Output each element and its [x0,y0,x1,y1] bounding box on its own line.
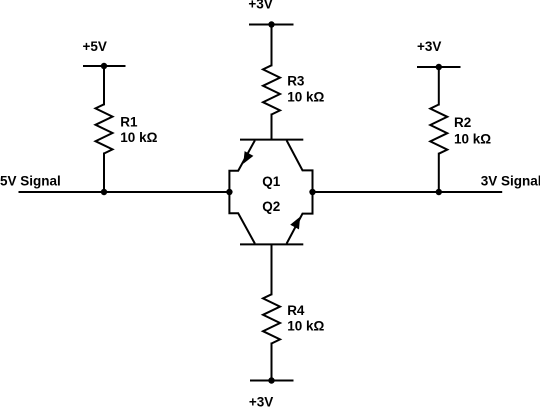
svg-text:10 kΩ: 10 kΩ [287,89,324,104]
transistor Q2 emitter arrowhead [290,217,300,230]
resistor R4 [263,294,280,343]
svg-text:R4: R4 [287,303,305,318]
svg-text:10 kΩ: 10 kΩ [120,130,157,145]
transistor Q2 collector (left) [229,192,255,244]
junction node R2 / 3V signal [436,189,442,195]
svg-text:3V Signal: 3V Signal [481,174,540,189]
svg-text:10 kΩ: 10 kΩ [287,319,324,334]
wire R1 top [103,66,105,105]
resistor R1 [96,104,113,153]
transistor Q1 base bar [240,139,303,141]
power rail +3V right [417,66,461,68]
resistor R2 [430,105,447,154]
svg-text:R3: R3 [287,74,305,89]
junction node R1 / 5V signal [101,189,107,195]
svg-text:5V Signal: 5V Signal [0,174,61,189]
power rail +5V [83,65,126,67]
wire R3 bottom [271,114,273,140]
transistor Q2 emitter (right, arrow) [287,192,313,244]
junction +5V rail [101,63,107,69]
transistor Q2 base bar [240,243,303,245]
resistor R3 [263,65,280,114]
svg-text:+3V: +3V [417,39,441,54]
wire R4 bottom [271,343,273,381]
transistor Q1 emitter arrowhead [243,151,253,164]
wire 3V signal [313,191,503,193]
wire R3 top [271,25,273,67]
svg-text:R1: R1 [120,115,138,130]
junction +3V top rail [268,21,274,27]
svg-text:+3V: +3V [248,0,272,12]
junction +3V bottom rail [268,377,274,383]
svg-text:+5V: +5V [83,39,107,54]
wire R2 top [438,67,440,106]
svg-text:+3V: +3V [249,394,273,407]
svg-text:Q2: Q2 [262,199,280,214]
junction node Q1/Q2 right [309,189,315,195]
power rail +3V bottom [250,380,294,382]
wire R1 bottom [103,153,105,193]
svg-text:Q1: Q1 [262,174,281,189]
wire R4 top [271,244,273,295]
transistor Q1 emitter (left, arrow) [229,140,255,192]
junction node Q1/Q2 left [226,189,232,195]
junction +3V right rail [436,64,442,70]
svg-text:R2: R2 [454,115,471,130]
wire R2 bottom [438,153,440,192]
transistor Q1 collector (right) [287,140,313,192]
svg-text:10 kΩ: 10 kΩ [454,131,491,146]
power rail +3V top [249,24,294,26]
wire 5V signal [19,191,230,193]
